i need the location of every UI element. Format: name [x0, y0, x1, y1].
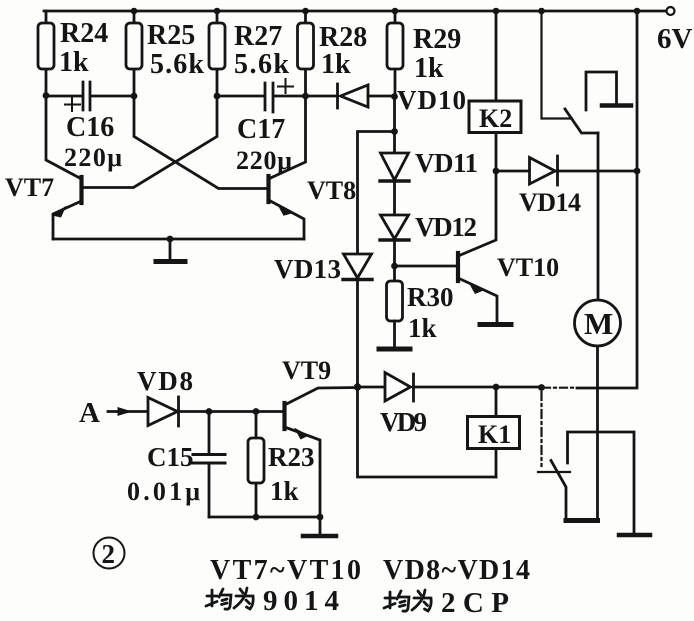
wire contact to motor: [597, 133, 600, 300]
svg-text:9014: 9014: [263, 585, 339, 617]
wire VT10 base: [395, 265, 457, 268]
svg-text:VT9: VT9: [282, 356, 331, 385]
diode VD13 (points down): [344, 254, 372, 278]
node R28 top: [302, 8, 309, 15]
node R23 bottom: [253, 514, 260, 521]
svg-text:C15: C15: [147, 442, 194, 472]
svg-text:R23: R23: [268, 442, 315, 472]
note 9014 with hanzi jun wei: [206, 588, 253, 609]
svg-text:0.01μ: 0.01μ: [127, 477, 200, 506]
resistor R27: [216, 11, 219, 96]
node VD14 right rail: [634, 168, 641, 175]
svg-text:2CP: 2CP: [441, 587, 509, 619]
wire VT8 collector from R28 node: [271, 96, 306, 178]
relay coil K1: [495, 387, 498, 477]
transistor VT9 base bar: [282, 403, 286, 429]
ground R30: [379, 347, 410, 352]
relay coil K2: [495, 13, 498, 171]
node R25/C16: [131, 93, 138, 100]
C17 polarity plus: [278, 79, 293, 93]
svg-text:220μ: 220μ: [64, 143, 122, 172]
hanzi jun (2CP note): [384, 592, 395, 608]
wire VT7 collector from R24 node: [46, 96, 82, 179]
resistor R25: [133, 11, 136, 96]
hanzi wei (2CP note): [412, 590, 431, 611]
resistor R24: [45, 11, 48, 96]
node R29/VD10: [391, 93, 398, 100]
contact K2 blade: [565, 109, 598, 133]
svg-text:R25: R25: [147, 20, 195, 51]
wire VT7 base cross-couple from R27 node: [84, 96, 218, 188]
svg-text:VT8: VT8: [307, 176, 356, 205]
transistor VT10 base bar: [456, 253, 460, 281]
svg-text:K1: K1: [478, 420, 511, 449]
transistor VT8 base bar: [266, 176, 270, 202]
transistor VT9 emitter: [285, 427, 321, 517]
node VT10 base tap: [391, 263, 398, 270]
svg-text:R30: R30: [407, 282, 454, 312]
wire R24 bottom to C16: [46, 95, 82, 98]
hanzi jun (9014 note): [206, 590, 217, 606]
wire VD14 row: [496, 170, 637, 173]
svg-text:VD8~VD14: VD8~VD14: [383, 555, 530, 586]
node VT9 collector / VD13 / VD9 junction: [354, 383, 361, 390]
resistor R23: [255, 412, 258, 518]
ground lower right: [619, 533, 650, 538]
transistor VT10 collector: [458, 171, 496, 256]
svg-text:VD10: VD10: [397, 85, 466, 115]
svg-text:C16: C16: [66, 112, 114, 143]
contact K1 linkage: [540, 392, 542, 466]
capacitor C15: [208, 412, 211, 454]
figure number 2: [94, 538, 125, 569]
wire motor to lower contact: [596, 346, 599, 520]
svg-text:K2: K2: [479, 104, 512, 133]
resistor R29: [394, 11, 397, 96]
diode VD12 (points down): [381, 215, 409, 239]
transistor VT8 emitter: [269, 200, 305, 239]
node VD14 left: [493, 168, 500, 175]
wire top supply rail: [44, 10, 666, 13]
node linkage tap: [538, 384, 545, 391]
ground VT10: [480, 322, 511, 327]
svg-text:5.6k: 5.6k: [150, 49, 204, 80]
transistor VT10 emitter: [458, 278, 497, 322]
svg-text:5.6k: 5.6k: [234, 49, 289, 80]
svg-text:1k: 1k: [408, 313, 437, 343]
svg-text:2: 2: [102, 539, 116, 569]
svg-text:1k: 1k: [321, 49, 351, 80]
svg-text:VD9: VD9: [380, 407, 427, 437]
node emitter/ground: [317, 514, 324, 521]
svg-text:VT10: VT10: [497, 253, 559, 282]
transistor VT7 base bar: [79, 177, 83, 203]
C16 polarity plus: [65, 98, 80, 111]
capacitor C17: [265, 83, 273, 112]
input arrow: [118, 407, 133, 416]
node right rail top: [634, 8, 641, 15]
wire R28 node to VD10: [306, 95, 337, 98]
wire A input: [108, 410, 147, 413]
wire C17 to R28 node: [274, 95, 306, 98]
svg-text:1k: 1k: [270, 476, 299, 506]
node R24/C16: [43, 92, 50, 99]
svg-text:VD8: VD8: [137, 366, 193, 396]
ground VT9: [319, 517, 322, 534]
wire VT8 base cross-couple from R25 node: [134, 96, 267, 189]
wire emitter rail: [53, 238, 304, 241]
node C15 top: [206, 408, 213, 415]
ground multivibrator: [169, 239, 172, 259]
svg-text:6V: 6V: [657, 23, 693, 55]
node R29 top: [392, 8, 399, 15]
resistor R28: [304, 11, 307, 96]
motor M: [575, 300, 621, 346]
terminal 6V: [667, 7, 675, 15]
wire VD12 to R30: [393, 240, 396, 281]
wire contact K2 feed from rail: [542, 11, 573, 119]
resistor R30: [387, 281, 403, 321]
wire to VD9: [358, 386, 385, 389]
wire VD11 to VD12: [393, 181, 396, 215]
wire VD11 chain top: [393, 96, 396, 153]
svg-text:VT7: VT7: [5, 173, 54, 202]
node R27 top: [214, 8, 221, 15]
hanzi wei (9014 note): [234, 588, 253, 609]
node contact top: [538, 8, 545, 15]
wire K1 bottom loop: [358, 387, 497, 477]
svg-text:R29: R29: [413, 24, 461, 55]
transistor VT9 collector: [285, 388, 358, 406]
wire dashed to right rail corner: [543, 387, 577, 389]
transistor VT7 emitter: [53, 201, 82, 239]
diode VD8 (points right): [148, 398, 178, 426]
contact K1 fixed bracket: [568, 432, 635, 533]
wire R27 node to C17: [217, 95, 264, 98]
diode VD14 (points right): [530, 158, 556, 185]
node R28/C17/VD10: [302, 93, 309, 100]
wire VD9 to K1 node: [414, 386, 544, 389]
wire C16 to R25 node: [91, 95, 134, 98]
wire VD8 to VT9 base: [179, 410, 283, 413]
diode VD11 (points down): [381, 153, 409, 180]
diode VD9 (points right): [385, 373, 411, 402]
node R27/C17: [214, 93, 221, 100]
node R23 top: [253, 408, 260, 415]
svg-text:VT7~VT10: VT7~VT10: [210, 555, 361, 586]
diode VD10 (points left): [336, 84, 339, 108]
svg-text:R24: R24: [60, 18, 108, 49]
svg-text:VD13: VD13: [274, 254, 341, 284]
svg-text:A: A: [79, 397, 100, 429]
svg-text:R27: R27: [234, 21, 282, 52]
contact K1 moving bar: [566, 518, 598, 523]
svg-text:1k: 1k: [414, 53, 444, 84]
wire R30 to ground: [393, 321, 396, 347]
capacitor C16: [83, 82, 90, 110]
node K1 top: [493, 384, 500, 391]
svg-text:VD14: VD14: [519, 188, 581, 217]
svg-text:M: M: [584, 306, 613, 341]
svg-text:VD11: VD11: [415, 148, 478, 178]
svg-text:VD12: VD12: [415, 212, 477, 242]
node jog to VD13 line: [391, 128, 398, 135]
svg-text:C17: C17: [237, 114, 285, 145]
node K2 top: [493, 8, 500, 15]
wire VD10 to R29 node: [368, 95, 395, 98]
wire bottom return: [209, 516, 320, 519]
node R25 top: [131, 8, 138, 15]
wire jog to VD13 branch: [358, 132, 395, 255]
svg-text:1k: 1k: [59, 47, 89, 78]
wire VD13 to VT9 collector node: [356, 280, 359, 387]
node emitter rail ground tap: [167, 236, 174, 243]
wire right rail: [577, 11, 637, 388]
contact K2 fixed bracket: [586, 72, 617, 110]
note 2CP with hanzi jun wei: [384, 590, 431, 611]
